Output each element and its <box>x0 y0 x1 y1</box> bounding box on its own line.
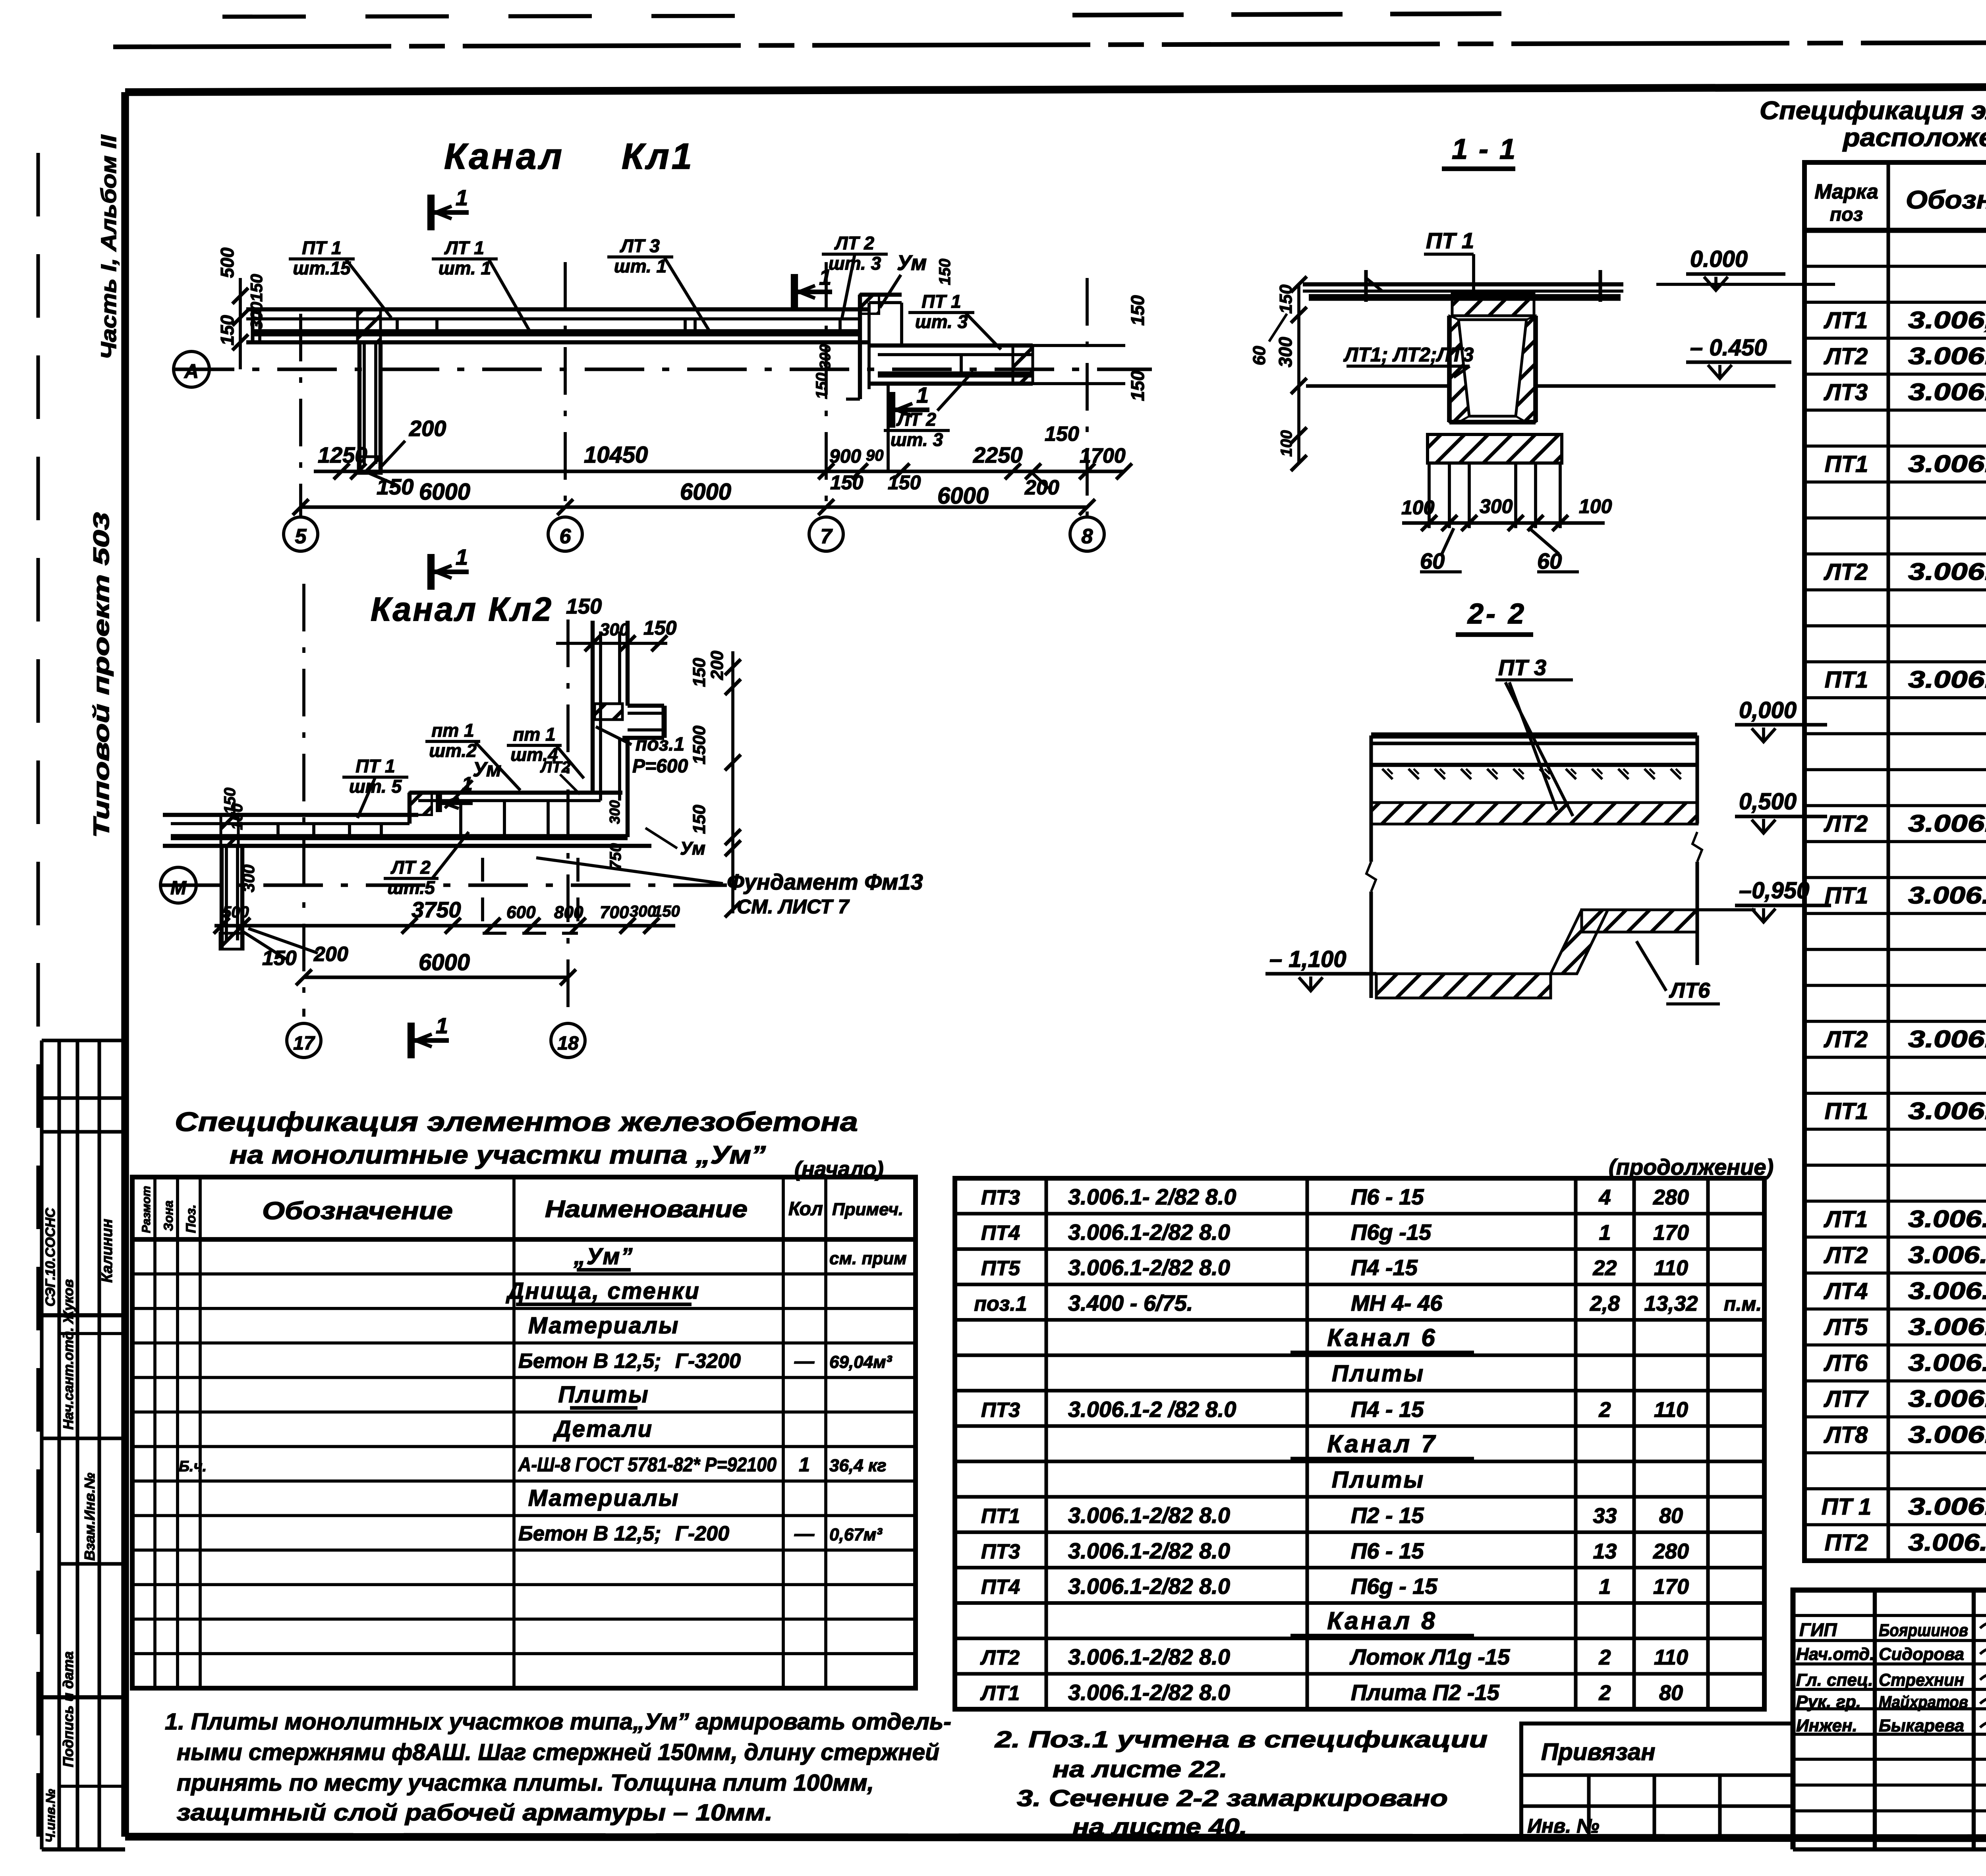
svg-text:(продолжение): (продолжение) <box>1609 1154 1773 1179</box>
svg-text:Обозначение: Обозначение <box>1906 185 1986 214</box>
section 1-1 top slab <box>1303 282 1623 286</box>
svg-text:„Ум”: „Ум” <box>574 1244 634 1270</box>
svg-text:3.400 - 6/75.: 3.400 - 6/75. <box>1068 1290 1193 1315</box>
svg-text:3.006.1-2/82 8.0: 3.006.1-2/82 8.0 <box>1068 1573 1230 1598</box>
svg-text:280: 280 <box>1653 1185 1689 1209</box>
KL2 dimension line row 1 <box>214 924 675 927</box>
svg-text:Спецификация элементов сборн: Спецификация элементов сборной конструкц… <box>1760 96 1986 125</box>
svg-text:110: 110 <box>1654 1398 1688 1422</box>
svg-text:ными стержнями ф8АШ. Шаг сте: ными стержнями ф8АШ. Шаг стержней 150мм,… <box>177 1739 939 1765</box>
svg-text:60: 60 <box>1250 346 1269 365</box>
svg-text:ПТ1: ПТ1 <box>1825 1098 1868 1124</box>
section 2-2 ramp hatched <box>1551 910 1608 974</box>
continuation table grid <box>955 1178 1764 1709</box>
svg-text:поз.1: поз.1 <box>636 734 684 755</box>
svg-text:Канал: Канал <box>444 136 564 177</box>
svg-text:150: 150 <box>566 594 602 618</box>
svg-text:Ч.инв.№: Ч.инв.№ <box>43 1789 58 1843</box>
axis A dash-dot line <box>175 367 1152 371</box>
svg-text:6000: 6000 <box>937 483 989 509</box>
svg-text:3.006.1– 2/82 8.0: 3.006.1– 2/82 8.0 <box>1908 1241 1986 1268</box>
svg-text:36,4 кг: 36,4 кг <box>829 1456 887 1475</box>
svg-text:280: 280 <box>1653 1539 1689 1563</box>
svg-text:1700: 1700 <box>1080 444 1126 467</box>
KL2 left end cap hatched <box>221 815 238 846</box>
svg-text:150: 150 <box>813 372 831 399</box>
section cut mark 1 near Um <box>791 274 798 310</box>
KL1 right end cap hatched <box>1013 345 1033 384</box>
svg-text:18: 18 <box>557 1033 579 1054</box>
KL1 plate joint ticks <box>396 319 399 333</box>
svg-text:Г-3200: Г-3200 <box>675 1349 741 1372</box>
svg-text:150: 150 <box>690 658 709 687</box>
svg-text:80: 80 <box>1659 1504 1683 1528</box>
grid line column 5 <box>299 314 302 516</box>
section 1-1 slab span ticks <box>1364 270 1368 302</box>
KL2 grid circle 17 <box>287 1023 321 1058</box>
svg-text:90: 90 <box>866 447 884 464</box>
svg-text:ЛТ8: ЛТ8 <box>1824 1422 1868 1448</box>
signature squiggles <box>1980 1622 1986 1633</box>
svg-text:на монолитные участки типа: на монолитные участки типа „Ум” <box>230 1141 766 1169</box>
svg-text:3.006.1-2 /82 8.0: 3.006.1-2 /82 8.0 <box>1068 1397 1236 1422</box>
svg-text:Днища, стенки: Днища, стенки <box>505 1278 700 1304</box>
svg-text:Канал 8: Канал 8 <box>1327 1608 1437 1635</box>
svg-text:Часть I, Альбом II: Часть I, Альбом II <box>97 135 121 359</box>
svg-text:300: 300 <box>600 620 629 639</box>
KL1 left vertical channel bottom cap <box>358 457 381 473</box>
svg-text:п.м.: п.м. <box>1724 1293 1762 1315</box>
svg-text:33: 33 <box>1593 1504 1617 1528</box>
svg-text:150: 150 <box>653 903 680 920</box>
svg-text:Г-200: Г-200 <box>675 1522 729 1545</box>
svg-text:Кл1: Кл1 <box>622 136 694 177</box>
svg-text:3.006.1-2/82 8.0: 3.006.1-2/82 8.0 <box>1908 1493 1986 1520</box>
svg-text:22: 22 <box>1592 1256 1617 1280</box>
svg-text:Поз.: Поз. <box>184 1204 199 1233</box>
svg-text:ЛТ6: ЛТ6 <box>1669 979 1710 1002</box>
svg-text:13,32: 13,32 <box>1644 1291 1698 1315</box>
svg-text:200: 200 <box>1024 476 1059 499</box>
svg-text:300: 300 <box>607 800 623 824</box>
section 2-2 right boundary <box>1695 735 1699 824</box>
svg-text:150: 150 <box>888 471 921 494</box>
svg-text:ПТ 1: ПТ 1 <box>1426 228 1474 253</box>
grid circle 5 <box>284 517 318 551</box>
section cut mark 1 KL2 bottom <box>408 1023 415 1058</box>
svg-text:170: 170 <box>1653 1575 1689 1598</box>
svg-text:ЛТ1: ЛТ1 <box>1824 307 1868 333</box>
right spec table grid <box>1804 162 1986 1561</box>
svg-text:3.006.1-2/82 8.0: 3.006.1-2/82 8.0 <box>1908 378 1986 405</box>
svg-text:ПТ3: ПТ3 <box>981 1186 1020 1209</box>
svg-text:ПТ 1: ПТ 1 <box>1822 1494 1872 1520</box>
svg-text:ПТ1: ПТ1 <box>1825 667 1868 693</box>
svg-text:1: 1 <box>436 1013 448 1038</box>
svg-text:4: 4 <box>1598 1185 1611 1209</box>
section 1-1 foundation hatched <box>1428 434 1562 463</box>
svg-text:300: 300 <box>630 903 656 920</box>
svg-text:3.006.1-2/82 8.0: 3.006.1-2/82 8.0 <box>1908 666 1986 693</box>
KL2 left vertical channel <box>220 846 224 949</box>
svg-text:2: 2 <box>1598 1398 1611 1422</box>
svg-text:СМ. ЛИСТ 7: СМ. ЛИСТ 7 <box>737 896 850 918</box>
svg-text:3.006.1-2/82 8.0: 3.006.1-2/82 8.0 <box>1068 1680 1230 1705</box>
section 1-1 bottom dim extensions <box>1428 463 1431 528</box>
svg-text:2: 2 <box>1598 1681 1611 1705</box>
svg-text:6000: 6000 <box>419 950 470 975</box>
svg-text:Бояршинов: Бояршинов <box>1879 1621 1968 1640</box>
svg-text:ЛТ2: ЛТ2 <box>1824 1027 1868 1052</box>
svg-text:1: 1 <box>456 544 468 569</box>
svg-text:300: 300 <box>1480 495 1513 517</box>
svg-text:ПТ 1: ПТ 1 <box>922 291 961 312</box>
svg-text:Зона: Зона <box>161 1200 176 1231</box>
UM table grid <box>132 1177 916 1688</box>
section 1-1 bottom dim line <box>1402 521 1605 525</box>
svg-text:3.006.1-2 /82 8.0: 3.006.1-2 /82 8.0 <box>1908 1278 1986 1304</box>
svg-text:100: 100 <box>1401 496 1435 519</box>
KL1 left end cap hatched <box>357 309 381 342</box>
svg-text:Б.ч.: Б.ч. <box>179 1458 207 1475</box>
svg-text:150: 150 <box>221 787 239 814</box>
svg-text:3.006.1– 2/82 8.0: 3.006.1– 2/82 8.0 <box>1908 1529 1986 1556</box>
KL1 right end continuation lines <box>1033 344 1125 347</box>
svg-text:защитный слой рабочей армат: защитный слой рабочей арматуры – 10мм. <box>177 1800 773 1826</box>
svg-text:Кол: Кол <box>788 1199 823 1220</box>
svg-text:3. Сечение 2-2 замаркировано: 3. Сечение 2-2 замаркировано <box>1017 1785 1448 1811</box>
KL1 dimension line row 1 <box>314 469 1124 473</box>
svg-text:150: 150 <box>643 617 677 639</box>
KL2 main band walls <box>163 813 418 817</box>
svg-text:3.006.1-2/82 8.0: 3.006.1-2/82 8.0 <box>1068 1503 1230 1528</box>
svg-text:Рук. гр.: Рук. гр. <box>1796 1692 1861 1712</box>
KL2 right side vertical dim line <box>731 651 734 913</box>
svg-text:Р=600: Р=600 <box>632 756 688 777</box>
svg-text:3.006.1-2 /82 8.0: 3.006.1-2 /82 8.0 <box>1908 882 1986 909</box>
svg-text:Ум: Ум <box>680 838 705 859</box>
section cut mark small KL2 <box>436 794 442 812</box>
grid line column 6 <box>564 262 567 516</box>
svg-text:МН 4- 46: МН 4- 46 <box>1351 1290 1443 1315</box>
svg-text:ЛТ 2: ЛТ 2 <box>390 857 431 878</box>
svg-text:3.006.1-2/82 8.0: 3.006.1-2/82 8.0 <box>1068 1644 1230 1669</box>
KL2 dimension line row 2 6000 <box>304 975 568 979</box>
svg-text:1500: 1500 <box>690 726 709 764</box>
svg-text:7: 7 <box>821 525 833 548</box>
axis circle A <box>174 351 209 387</box>
svg-text:3.006.1-2/82 8.0: 3.006.1-2/82 8.0 <box>1068 1255 1230 1280</box>
svg-text:6: 6 <box>560 525 572 548</box>
section cut mark 1 top left <box>427 195 435 230</box>
svg-text:2: 2 <box>1598 1646 1611 1669</box>
grid circle 7 <box>809 517 843 551</box>
svg-text:200: 200 <box>707 650 727 680</box>
svg-text:80: 80 <box>1659 1681 1683 1705</box>
svg-text:10450: 10450 <box>584 442 648 468</box>
svg-text:Наименование: Наименование <box>545 1196 748 1222</box>
svg-text:Нач.отд.: Нач.отд. <box>1796 1644 1874 1664</box>
svg-text:1: 1 <box>916 382 929 407</box>
svg-text:100: 100 <box>1579 495 1612 517</box>
svg-text:13: 13 <box>1593 1539 1617 1563</box>
section 2-2 floor slab <box>1371 732 1697 739</box>
svg-text:150: 150 <box>217 315 238 345</box>
svg-text:2,8: 2,8 <box>1590 1291 1620 1315</box>
privyazan box <box>1521 1724 1793 1837</box>
svg-text:500: 500 <box>222 903 249 921</box>
svg-text:1: 1 <box>1599 1221 1611 1245</box>
svg-text:пт 1: пт 1 <box>513 724 555 745</box>
KL1 lower channel band right part <box>869 344 1033 347</box>
svg-text:Материалы: Материалы <box>528 1312 680 1338</box>
svg-text:Бетон В 12,5;: Бетон В 12,5; <box>518 1522 661 1545</box>
svg-text:Привязан: Привязан <box>1541 1739 1655 1765</box>
svg-text:ПТ4: ПТ4 <box>981 1222 1020 1245</box>
svg-text:ПТ3: ПТ3 <box>981 1540 1020 1563</box>
svg-text:Типовой проект 503: Типовой проект 503 <box>89 512 114 838</box>
svg-text:ЛТ4: ЛТ4 <box>1824 1278 1868 1304</box>
title block signature columns <box>1873 1590 1877 1849</box>
svg-text:—: — <box>794 1350 815 1372</box>
grid line column 7 <box>825 262 828 516</box>
section 1-1 left dim stack <box>1297 284 1300 463</box>
svg-text:Канал Кл2: Канал Кл2 <box>371 591 553 628</box>
svg-text:Нач.сант.отд. Жуков: Нач.сант.отд. Жуков <box>61 1279 76 1430</box>
svg-text:150: 150 <box>1127 371 1148 401</box>
KL1 upper channel band walls <box>246 307 868 311</box>
svg-text:Сидорова: Сидорова <box>1879 1644 1964 1664</box>
svg-text:8: 8 <box>1082 525 1093 548</box>
svg-text:ПТ5: ПТ5 <box>981 1257 1020 1280</box>
svg-text:на листе 40.: на листе 40. <box>1072 1814 1247 1840</box>
svg-text:П2 - 15: П2 - 15 <box>1351 1503 1424 1528</box>
svg-text:3.006.1-2/82 8.0: 3.006.1-2/82 8.0 <box>1068 1220 1230 1245</box>
svg-text:Детали: Детали <box>553 1416 653 1442</box>
svg-text:Плиты: Плиты <box>558 1382 649 1407</box>
section cut mark 1 KL2 top <box>427 554 435 590</box>
svg-text:5: 5 <box>295 525 307 548</box>
svg-text:150: 150 <box>247 274 266 302</box>
KL2 axis circle M <box>160 867 196 903</box>
svg-text:100: 100 <box>1278 430 1295 457</box>
svg-text:Обозначение: Обозначение <box>262 1197 453 1225</box>
KL2 foundation dashed outline <box>481 858 484 933</box>
svg-text:ПТ 1: ПТ 1 <box>355 756 395 776</box>
svg-text:3.006.1-2 /82 8.0: 3.006.1-2 /82 8.0 <box>1908 1206 1986 1232</box>
svg-text:3750: 3750 <box>411 897 461 922</box>
svg-text:0,67м³: 0,67м³ <box>829 1525 883 1544</box>
svg-text:—: — <box>794 1523 815 1545</box>
KL1 vertical below Um <box>887 384 890 473</box>
svg-text:ПТ1: ПТ1 <box>1825 451 1868 477</box>
svg-text:750: 750 <box>607 843 624 870</box>
svg-text:ЛТ2: ЛТ2 <box>1824 559 1868 585</box>
svg-text:Лоток Л1g -15: Лоток Л1g -15 <box>1349 1644 1510 1669</box>
svg-text:Калинин: Калинин <box>99 1219 116 1283</box>
svg-text:шт. 1: шт. 1 <box>439 258 491 278</box>
KL2 top vertical channel walls <box>591 621 595 793</box>
svg-text:П6 - 15: П6 - 15 <box>1351 1184 1424 1209</box>
svg-text:ЛТ 1: ЛТ 1 <box>444 237 484 258</box>
svg-text:Спецификация элементов желез: Спецификация элементов железобетона <box>175 1107 858 1137</box>
svg-text:110: 110 <box>1654 1646 1688 1669</box>
svg-text:300: 300 <box>817 344 834 369</box>
svg-text:3.006.1-2/82 8.0: 3.006.1-2/82 8.0 <box>1908 1098 1986 1124</box>
fold dash line left margin <box>36 153 40 1851</box>
KL2 band joint ticks <box>276 824 280 837</box>
svg-text:на листе 22.: на листе 22. <box>1053 1756 1227 1782</box>
svg-text:ПТ1: ПТ1 <box>1825 883 1868 909</box>
svg-text:Размот: Размот <box>140 1186 153 1233</box>
left margin stamp strip <box>40 1040 43 1849</box>
KL2 Um step hatched corner <box>410 793 432 815</box>
svg-text:ЛТ2: ЛТ2 <box>540 759 570 776</box>
svg-text:1 - 1: 1 - 1 <box>1452 133 1517 165</box>
section 2-2 soil hatch ticks <box>1382 769 1393 779</box>
continuation table row lines <box>955 1212 1764 1216</box>
svg-text:2. Поз.1 учтена в специфи: 2. Поз.1 учтена в спецификации <box>995 1727 1488 1752</box>
svg-text:1: 1 <box>799 1453 810 1476</box>
svg-text:А: А <box>184 360 199 382</box>
svg-text:1250: 1250 <box>318 442 367 467</box>
svg-text:шт.5: шт.5 <box>387 877 435 898</box>
KL2 grid line column 18 <box>566 620 570 1017</box>
svg-text:поз: поз <box>1830 204 1863 225</box>
svg-text:3.006.1-2/82 8.0: 3.006.1-2/82 8.0 <box>1908 1385 1986 1412</box>
svg-text:Плиты: Плиты <box>1332 1361 1425 1387</box>
svg-text:300: 300 <box>247 302 266 330</box>
svg-text:М: М <box>170 878 187 899</box>
svg-text:17: 17 <box>293 1033 315 1054</box>
svg-text:150: 150 <box>830 471 864 494</box>
svg-text:69,04м³: 69,04м³ <box>829 1352 893 1372</box>
svg-text:ПТ2: ПТ2 <box>1825 1530 1868 1556</box>
svg-text:– 0.450: – 0.450 <box>1690 335 1767 361</box>
svg-text:3.006.1-2/82 8.0: 3.006.1-2/82 8.0 <box>1908 1421 1986 1448</box>
svg-text:0.000: 0.000 <box>1690 246 1748 272</box>
KL2 axis M dash-dot <box>161 883 727 887</box>
svg-text:300: 300 <box>239 865 258 892</box>
KL1 right small wall tick <box>960 355 963 374</box>
svg-text:Инв. №: Инв. № <box>1527 1815 1599 1837</box>
svg-text:6000: 6000 <box>680 479 731 505</box>
svg-text:3.006.1-2/82 8.0: 3.006.1-2/82 8.0 <box>1908 1313 1986 1340</box>
svg-text:шт.2: шт.2 <box>429 740 477 761</box>
svg-text:ЛТ 2: ЛТ 2 <box>834 233 874 253</box>
svg-text:Плита П2 -15: Плита П2 -15 <box>1351 1680 1500 1705</box>
svg-text:Бетон В 12,5;: Бетон В 12,5; <box>518 1349 661 1372</box>
svg-text:шт. 1: шт. 1 <box>614 256 667 276</box>
drawing frame <box>125 85 1986 92</box>
svg-text:3.006.1-2/82 8.0: 3.006.1-2/82 8.0 <box>1908 1026 1986 1052</box>
svg-text:Ум: Ум <box>473 758 501 781</box>
svg-text:3.006.1-2/82 8.0: 3.006.1-2/82 8.0 <box>1068 1538 1230 1563</box>
svg-text:Примеч.: Примеч. <box>832 1200 903 1219</box>
svg-text:0,500: 0,500 <box>1739 789 1797 814</box>
svg-text:2250: 2250 <box>973 442 1023 467</box>
svg-text:см. прим: см. прим <box>829 1249 907 1268</box>
svg-text:Фундамент Фм13: Фундамент Фм13 <box>727 869 923 894</box>
svg-text:600: 600 <box>506 903 536 922</box>
svg-text:150: 150 <box>1276 284 1296 314</box>
svg-text:– 1,100: – 1,100 <box>1269 946 1347 972</box>
svg-text:Стрехнин: Стрехнин <box>1879 1670 1964 1690</box>
svg-text:ГИП: ГИП <box>1799 1619 1837 1640</box>
svg-text:ПТ 1: ПТ 1 <box>302 237 342 258</box>
svg-text:Материалы: Материалы <box>528 1485 680 1511</box>
svg-text:700: 700 <box>600 903 629 922</box>
svg-text:150: 150 <box>690 805 709 834</box>
KL2 right stub walls <box>628 704 664 708</box>
section 2-2 plate band hatched <box>1371 803 1697 824</box>
KL2 top vertical channel dim ticks <box>556 642 667 645</box>
svg-text:–0,950: –0,950 <box>1739 878 1809 903</box>
section 2-2 lower slab bottom hatched <box>1376 974 1551 998</box>
section 1-1 plate PT1 hatched <box>1452 293 1534 316</box>
KL1 Um step at column 7 <box>858 295 862 399</box>
svg-text:150: 150 <box>936 259 954 285</box>
svg-text:Майхратов: Майхратов <box>1879 1693 1968 1711</box>
svg-text:ПТ 3: ПТ 3 <box>1498 655 1546 680</box>
section 2-2 lower slab upper hatched <box>1582 910 1697 932</box>
KL2 right stub cap <box>662 706 667 738</box>
svg-text:2- 2: 2- 2 <box>1467 598 1526 630</box>
extra top edge dashes <box>222 16 755 17</box>
svg-text:Ум: Ум <box>897 251 927 275</box>
svg-text:принять по месту участка п: принять по месту участка плиты. Толщина … <box>177 1770 874 1796</box>
right spec table row lines <box>1804 265 1986 268</box>
svg-text:ПТ3: ПТ3 <box>981 1399 1020 1422</box>
svg-text:поз.1: поз.1 <box>974 1292 1027 1315</box>
svg-text:3.006.1- 2/82 8.0: 3.006.1- 2/82 8.0 <box>1068 1184 1236 1209</box>
svg-text:200: 200 <box>313 943 348 966</box>
grid circle 6 <box>548 517 582 551</box>
svg-text:ЛТ1: ЛТ1 <box>1824 1206 1868 1232</box>
svg-text:Инжен.: Инжен. <box>1796 1716 1857 1735</box>
svg-text:500: 500 <box>217 247 238 278</box>
svg-text:150: 150 <box>1045 423 1079 446</box>
svg-text:3.006.1-2/82 8.0: 3.006.1-2/82 8.0 <box>1908 558 1986 585</box>
svg-text:расположенным на листах КЖ: расположенным на листах КЖ 40 .. КЖ42 <box>1842 123 1986 152</box>
svg-text:ЛТ 3: ЛТ 3 <box>620 235 660 256</box>
svg-text:ЛТ2: ЛТ2 <box>1824 811 1868 837</box>
svg-text:800: 800 <box>554 903 583 922</box>
svg-text:1. Плиты монолитных участков: 1. Плиты монолитных участков типа„Ум” ар… <box>165 1709 951 1735</box>
section cut mark 1 lower right <box>888 392 895 428</box>
svg-text:Взам.Инв.№: Взам.Инв.№ <box>81 1473 98 1561</box>
svg-text:170: 170 <box>1653 1221 1689 1245</box>
floor level line at -0.450 <box>1306 384 1449 388</box>
svg-text:ЛТ7: ЛТ7 <box>1824 1386 1869 1412</box>
svg-text:1: 1 <box>819 264 831 290</box>
svg-text:П6g -15: П6g -15 <box>1351 1220 1432 1245</box>
svg-text:900: 900 <box>829 446 861 467</box>
svg-text:ПТ4: ПТ4 <box>981 1575 1020 1598</box>
svg-text:ЛТ6: ЛТ6 <box>1824 1350 1868 1376</box>
svg-text:200: 200 <box>409 416 446 441</box>
svg-text:СЭГ.10.СОСНС: СЭГ.10.СОСНС <box>43 1208 58 1307</box>
svg-text:1: 1 <box>456 185 468 210</box>
grid circle 8 <box>1070 517 1104 551</box>
svg-text:П6g - 15: П6g - 15 <box>1351 1573 1438 1598</box>
svg-text:ЛТ5: ЛТ5 <box>1824 1314 1868 1340</box>
svg-text:1: 1 <box>1599 1575 1611 1598</box>
svg-text:150: 150 <box>262 947 297 970</box>
svg-text:П6 - 15: П6 - 15 <box>1351 1538 1424 1563</box>
sheet registration dash line top <box>113 41 1986 47</box>
svg-text:150: 150 <box>1127 295 1148 326</box>
